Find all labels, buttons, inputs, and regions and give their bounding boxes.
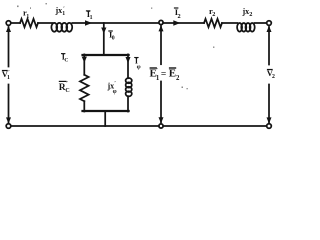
label V1' [2,69,10,81]
svg-text:1: 1 [26,14,29,20]
wire jx1' to shunt node [72,22,159,24]
label I2 [174,7,181,20]
svg-text:2: 2 [272,74,275,80]
svg-text:jx: jx [55,6,63,15]
wire left rail lower [83,101,85,111]
voltage arrow E1=E2 [159,25,164,123]
resistor r1' [20,19,38,27]
wire top-left segment [11,22,20,24]
wire right rail lower [127,96,129,111]
terminal secondary bottom [267,124,272,129]
svg-text:1: 1 [7,75,10,81]
terminal primary top [6,21,11,26]
label r1' [23,8,32,21]
current arrow I0 [101,28,106,34]
label Ic [61,53,68,64]
node E top circle [159,20,163,24]
wire shunt feed down [103,23,105,55]
label I0 [108,30,115,42]
svg-text:0: 0 [112,36,115,42]
svg-text:′: ′ [66,81,68,87]
svg-text:=: = [161,69,166,79]
svg-text:1: 1 [156,75,160,82]
svg-text:jx: jx [242,7,250,16]
svg-text:2: 2 [176,75,180,82]
inductor jxphi' [126,78,132,96]
svg-text:φ: φ [137,63,141,70]
wire jx2 to secondary terminal [255,22,267,24]
svg-text:φ: φ [113,88,117,95]
svg-text:1: 1 [62,11,65,17]
svg-text:′: ′ [30,8,32,14]
label jx1' [55,6,66,17]
voltage arrow V2 [267,26,272,124]
scan specks [17,3,214,89]
voltage arrow V1 [6,26,11,124]
label Iphi [134,56,140,70]
svg-text:2: 2 [212,11,215,18]
svg-text:′: ′ [156,68,158,74]
label I1 [86,9,93,21]
svg-text:C: C [64,58,68,64]
svg-text:1: 1 [90,15,93,21]
inductor jx1' [51,23,72,32]
label Rc' [59,81,70,94]
svg-text:C: C [65,88,69,94]
current arrow Ic [82,57,87,63]
wire left rail upper [83,54,85,74]
label V2 [267,68,275,80]
terminal primary bottom [6,124,11,129]
shunt top bar [83,54,129,56]
inductor jx2 [237,23,255,32]
resistor r2 [204,19,222,27]
svg-text:′: ′ [114,81,116,87]
current arrow I1 [85,20,92,25]
wire shunt bottom feed [104,111,106,126]
label r2 [209,6,215,18]
label E1=E2 [150,68,181,83]
wire right rail upper [127,54,129,78]
current arrow Iphi [126,57,131,63]
wire bottom left [11,125,159,127]
wire top node to I2 [163,22,204,24]
terminal secondary top [267,21,272,26]
node E bottom circle [159,124,163,128]
wire r2 to jx2 [222,22,237,24]
wire between r1' and jx1' [38,22,52,24]
label jx2 [242,7,253,18]
resistor Rc' [80,75,89,101]
label jxphi' [107,81,117,96]
current arrow I2 [173,20,180,25]
svg-text:2: 2 [178,13,181,20]
shunt bottom bar [83,110,129,112]
wire bottom right [163,125,267,127]
svg-text:2: 2 [249,11,252,18]
